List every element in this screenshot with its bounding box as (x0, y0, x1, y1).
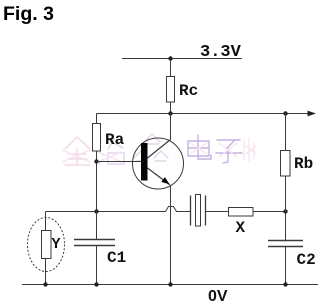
wire collector (node to transistor) (170, 114, 172, 140)
svg-text:Rb: Rb (294, 155, 313, 173)
node ground C1 junction (94, 282, 98, 286)
svg-text:C2: C2 (297, 251, 316, 269)
wire ground rail 0V (22, 284, 318, 286)
crystal Y dashed ellipse (28, 218, 65, 272)
wire collector top (rail to Rc) (170, 59, 172, 77)
svg-text:X: X (236, 219, 246, 237)
transistor Q1 emitter arrow (161, 177, 169, 184)
transistor Q1 base bar (141, 143, 148, 181)
crystal X1 left plate (190, 196, 192, 226)
crystal Y body rect (42, 231, 52, 259)
svg-text:Ra: Ra (105, 131, 125, 149)
crystal X1 right plate (205, 196, 207, 226)
node base junction (94, 159, 98, 163)
wire Rb bottom to C2 (285, 176, 287, 240)
wire Rb top (285, 114, 287, 151)
capacitor C1 plates (74, 240, 115, 246)
node ground Y junction (43, 282, 47, 286)
svg-text:Y: Y (52, 236, 61, 253)
node ground emitter junction (168, 282, 172, 286)
node ground C2 junction (283, 282, 287, 286)
svg-text:3.3V: 3.3V (200, 43, 242, 62)
capacitor C2 plates (268, 241, 303, 247)
transistor Q1 circle (133, 138, 184, 189)
wire lower horizontal with hop over emitter (46, 207, 191, 212)
node rail-Rc junction (168, 56, 172, 60)
wire Rc bottom (170, 102, 172, 114)
watermark (62, 134, 256, 165)
wire Ra top (96, 114, 98, 124)
node lower line C1 junction (94, 209, 98, 213)
transistor Q1 emitter lead (148, 168, 171, 185)
resistor X body (229, 208, 254, 217)
wire emitter down to ground rail (170, 186, 172, 285)
svg-text:Rc: Rc (179, 82, 198, 100)
resistor Rb (281, 151, 291, 177)
svg-text:0V: 0V (208, 288, 228, 303)
transistor Q1 collector lead (148, 140, 171, 159)
capacitor C1 top wire (96, 212, 98, 240)
resistor Rc (167, 77, 175, 103)
crystal X1 body rect (196, 195, 201, 227)
node mid rail collector junction (168, 111, 172, 115)
svg-text:C1: C1 (107, 249, 126, 267)
node X Rb junction (283, 209, 287, 213)
resistor Ra (93, 124, 101, 152)
wire mid rail with arrow (97, 113, 309, 115)
wire X to Rb branch (253, 211, 286, 213)
wire Y branch vertical (45, 212, 47, 285)
wire crystal to X (206, 211, 229, 213)
node mid rail Rb junction (283, 111, 287, 115)
capacitor C2 bottom wire (285, 247, 287, 285)
svg-text:Fig. 3: Fig. 3 (3, 3, 54, 25)
arrow mid rail right end (308, 111, 317, 117)
wire Ra bottom down to lower node (96, 151, 98, 212)
wire base (97, 161, 142, 163)
capacitor C1 bottom wire (96, 246, 98, 285)
wire 3.3V rail (122, 58, 242, 60)
